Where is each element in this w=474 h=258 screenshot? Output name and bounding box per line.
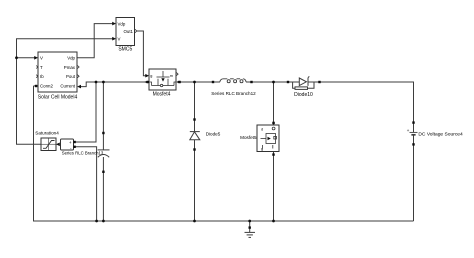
capacitor curved plate: [98, 155, 109, 158]
snubber branch: [293, 82, 295, 88]
positive plate: [410, 131, 418, 133]
svg-text:Conn2: Conn2: [40, 84, 53, 89]
svg-text:V: V: [118, 36, 121, 41]
plus terminal pad: [412, 121, 414, 123]
mosfet symbol rotated: [261, 134, 277, 149]
svg-text:Pout: Pout: [66, 74, 76, 79]
diode triangle: [299, 78, 306, 86]
wire: branch from node A to Solar Cell V input: [17, 57, 37, 59]
diode triangle: [190, 132, 200, 140]
m port bracket: [176, 73, 178, 76]
left terminal pad: [212, 81, 214, 83]
svg-text:V: V: [40, 56, 43, 61]
input arrow Saturation4: [56, 143, 60, 147]
input arrow SMC5 V: [112, 37, 116, 41]
controller block SMC5: [112, 18, 137, 53]
top terminal pad: [102, 132, 104, 134]
svg-text:Pmax: Pmax: [64, 65, 76, 70]
junction dot bottom bus at Mosfet5 branch: [272, 220, 275, 223]
svg-text:SMC5: SMC5: [118, 46, 132, 52]
port bracket Pmax: [77, 66, 79, 69]
wire: Mosfet5 source lead down to bottom bus: [273, 152, 275, 222]
battery DC Voltage Source4: [407, 121, 463, 145]
wire: Diode5 anode lead down to bottom bus: [194, 140, 196, 221]
wire: Diode5 cathode lead up to positive node: [194, 82, 196, 132]
transistor block Mosfet4: [144, 69, 180, 97]
svg-text:Series RLC Branch12: Series RLC Branch12: [211, 91, 256, 96]
drain terminal pad: [272, 122, 275, 125]
input arrow V: [34, 56, 38, 60]
svg-text:T: T: [40, 65, 43, 70]
bottom terminal pad: [102, 171, 104, 173]
wire: Saturation4 output left and up to SMC5 V input: [17, 39, 115, 145]
junction dot positive node at measurement riser: [95, 81, 98, 84]
svg-text:Out1: Out1: [123, 29, 133, 34]
voltage measurement block (flipped): [61, 139, 76, 150]
gate input arrow: [145, 74, 149, 78]
wire: Mosfet4 source to Series RLC Branch12 left terminal: [180, 81, 221, 83]
svg-text:g: g: [261, 147, 263, 151]
input arrow SMC5 Vdp: [112, 22, 116, 26]
wire: capacitor branch top lead: [102, 82, 104, 150]
svg-text:Saturation4: Saturation4: [35, 131, 59, 136]
junction dot positive node at capacitor branch: [102, 81, 105, 84]
source terminal arrow and pad: [176, 81, 179, 84]
wire: Solar Cell Vdp output up to SMC5 Vdp input: [77, 24, 114, 58]
svg-text:DC Voltage Source4: DC Voltage Source4: [418, 131, 463, 137]
svg-text:g: g: [150, 74, 152, 78]
svg-text:Diode10: Diode10: [294, 92, 313, 98]
input arrow Current: [77, 85, 81, 89]
wire: Series RLC Branch12 right terminal to Diode10 anode: [246, 81, 299, 83]
wire: voltage measurement minus input down to bottom bus: [75, 147, 97, 221]
port bracket Pout: [77, 75, 79, 78]
anode terminal pad: [193, 148, 195, 150]
cathode terminal pad: [318, 81, 320, 83]
capacitor flat plate: [98, 149, 110, 151]
anode terminal pad: [287, 81, 289, 83]
source terminal pad: [272, 153, 274, 155]
block Saturation4 (flipped, input on right): [35, 131, 60, 151]
svg-text:Mosfet5: Mosfet5: [240, 135, 257, 140]
measurement tick: [308, 76, 309, 77]
port bracket Ib: [36, 75, 38, 78]
minus terminal pad: [73, 146, 75, 148]
junction dot positive node at Mosfet5 branch: [272, 81, 275, 84]
wire: Solar Cell Conn2 port to left vertical: [34, 85, 39, 87]
svg-text:Current: Current: [60, 84, 75, 89]
junction dot bottom bus at measurement minus riser: [95, 220, 98, 223]
ground: [245, 232, 256, 237]
capacitor Series RLC Branch13: [98, 132, 110, 173]
port bracket T: [36, 66, 38, 69]
svg-text:Vdp: Vdp: [67, 56, 75, 61]
m port circle: [272, 127, 275, 130]
wire: Mosfet5 drain lead up to positive node: [273, 82, 275, 125]
coil: [220, 79, 228, 82]
wire: positive node from Solar Cell Current port to Mosfet4 drain: [80, 82, 146, 87]
svg-text:Ib: Ib: [40, 74, 44, 79]
node A junction dot (V feedback to Solar Cell): [15, 56, 18, 59]
negative plate: [411, 134, 415, 136]
wire: Diode10 cathode to right corner down to DC Voltage Source4 plus: [308, 82, 414, 132]
plus terminal pad: [73, 141, 75, 143]
junction dot positive node at Diode5 branch: [193, 81, 196, 84]
wire: capacitor branch bottom lead: [102, 157, 104, 221]
junction dot bottom bus at Diode5 branch: [193, 220, 196, 223]
drain terminal arrow and pad: [144, 81, 147, 84]
diode Diode5: [190, 118, 221, 150]
svg-text:m: m: [170, 74, 173, 78]
right terminal pad: [250, 81, 252, 83]
svg-text:d: d: [261, 128, 263, 132]
inductor Series RLC Branch12: [211, 79, 256, 96]
svg-text:Mosfet4: Mosfet4: [153, 91, 171, 97]
cathode bar: [190, 131, 200, 133]
svg-text:Diode5: Diode5: [206, 131, 221, 136]
block Solar Cell Model4: [34, 52, 81, 100]
diode Diode10 with snubber: [287, 76, 321, 98]
mosfet symbol: [150, 71, 176, 87]
output port bracket SMC5 Out1: [135, 29, 137, 32]
junction dot bottom bus at capacitor branch: [102, 220, 105, 223]
Conn2 port pad: [35, 85, 37, 87]
minus terminal pad: [412, 143, 414, 145]
cathode bar: [307, 78, 309, 86]
ground stub pad: [249, 226, 251, 228]
svg-text:Vdp: Vdp: [118, 21, 126, 26]
svg-text:+: +: [407, 128, 410, 133]
svg-text:Series RLC Branch13: Series RLC Branch13: [62, 151, 104, 156]
cathode terminal pad: [193, 118, 195, 120]
svg-text:Solar Cell Model4: Solar Cell Model4: [38, 94, 78, 100]
wire: ground stub from bottom bus: [249, 221, 251, 232]
wire: positive node down to voltage measurement plus input: [75, 82, 96, 142]
transistor block Mosfet5 (rotated): [240, 122, 279, 156]
wire: negative bus from Solar Cell Conn2 down and along bottom: [34, 86, 414, 221]
junction dot bottom bus at ground stub: [248, 220, 251, 223]
wire: DC Voltage Source4 minus lead down to bottom bus: [413, 135, 415, 221]
wire: SMC5 Out1 right and down to Mosfet4 gate: [137, 31, 148, 76]
